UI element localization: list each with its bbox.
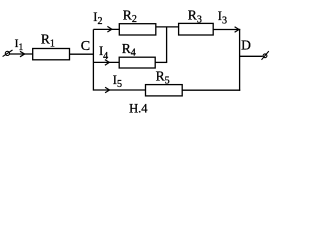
svg-text:Н.4: Н.4 bbox=[129, 102, 148, 116]
svg-text:C: C bbox=[81, 39, 90, 54]
svg-text:D: D bbox=[241, 37, 251, 52]
